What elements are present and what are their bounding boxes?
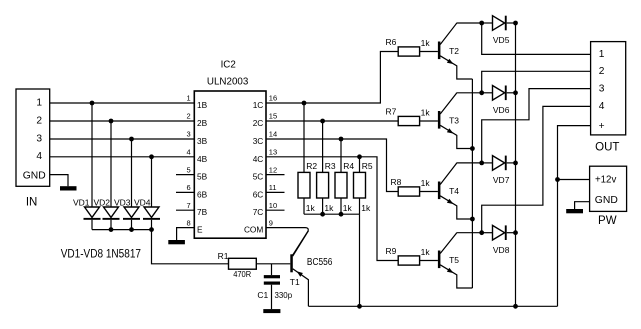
label VD5 [493,35,510,45]
svg-text:6B: 6B [197,189,208,199]
node VD5 anode junction [479,21,484,26]
node VD8 anode junction [479,230,484,235]
pin number 9 [269,218,273,227]
label BC556 [307,257,333,268]
wire R1 to T1 base [256,263,290,265]
label IC pin 4B [197,154,208,164]
svg-text:4: 4 [36,151,42,162]
label IC pin 3B [197,136,208,146]
wire +12v [558,179,590,181]
svg-text:1: 1 [599,49,605,60]
svg-text:GND: GND [23,171,46,182]
svg-text:470R: 470R [233,270,251,279]
pin number 2 [187,112,191,121]
value 1k of R5 [361,203,371,213]
connector PW box [590,166,627,211]
svg-text:7C: 7C [253,207,264,217]
resistor R2 [298,103,310,214]
wire OUT pin 2 [482,71,591,93]
resistor R6 [398,47,419,56]
label R7 [386,107,397,117]
value 1k of R2 [306,203,316,213]
wire R2-R5 bottom bus [304,213,360,215]
svg-text:1: 1 [187,94,191,103]
wire input 2 (IN pin 2 to IC pin 2) [50,120,195,122]
label R4 [343,161,354,171]
svg-text:R4: R4 [343,161,354,171]
pin number 1 [187,94,191,103]
resistor R8 [398,187,419,196]
svg-text:T5: T5 [449,255,459,265]
svg-text:R2: R2 [306,161,317,171]
value 330p [275,290,293,300]
label IC pin 5C [253,172,264,182]
svg-text:VD3: VD3 [114,197,131,207]
wire bottom +12V rail [308,305,557,307]
wire 1C to R6 [266,52,398,104]
diode VD5 [482,16,516,31]
diode VD8 [482,225,516,240]
wire IC pin 12 stub [266,174,285,176]
svg-text:VD7: VD7 [493,175,510,185]
diode VD7 [482,156,516,171]
pin number 6 [187,183,191,192]
connector OUT box [591,42,626,135]
label +12v [595,175,616,186]
label IC pin 1B [197,100,208,110]
label IC pin 3C [253,136,264,146]
wire R8 to T4 base [420,191,438,193]
connector IN pin 3 label [36,133,42,144]
svg-text:R8: R8 [391,177,402,187]
svg-text:6: 6 [187,183,191,192]
svg-text:16: 16 [269,94,277,103]
node bus R3 [320,212,325,217]
resistor R5 [354,157,366,214]
svg-text:BC556: BC556 [307,257,333,268]
wire OUT plus pin [558,126,591,307]
label IC pin 1C [253,100,264,110]
svg-text:5C: 5C [253,172,264,182]
svg-text:+12v: +12v [595,175,616,186]
svg-text:VD1-VD8 1N5817: VD1-VD8 1N5817 [61,248,141,260]
connector IN pin 2 label [36,115,42,126]
label IC pin 4C [253,154,264,164]
svg-text:4: 4 [187,148,191,157]
capacitor C1 [264,264,280,309]
svg-text:IN: IN [26,197,38,209]
node junction input 1 / VD1 [90,101,95,106]
pin number 10 [269,201,277,210]
label IC pin 2C [253,118,264,128]
node bus R4 [339,212,344,217]
pin number 12 [269,165,277,174]
svg-text:VD8: VD8 [493,245,510,255]
label IC pin 7B [197,207,208,217]
wire bus to R1 [152,230,229,264]
resistor R4 [335,139,347,214]
label VD1-VD8 1N5817 [61,248,141,260]
svg-text:T2: T2 [449,46,459,56]
svg-text:VD5: VD5 [493,35,510,45]
label IN [26,197,38,209]
diode VD2 [103,121,120,230]
pin number 15 [269,112,277,121]
node R5 at rail [357,304,362,309]
svg-text:2C: 2C [253,118,264,128]
label GND of PW [595,195,618,206]
label IC pin 6C [253,189,264,199]
svg-text:13: 13 [269,148,277,157]
node bus VD4 [149,227,154,232]
node +12v junction [555,177,560,182]
label IC pin 6B [197,189,208,199]
svg-text:1k: 1k [421,247,431,257]
svg-text:3: 3 [36,133,42,144]
label R2 [306,161,317,171]
diode VD6 [482,86,516,101]
pin number 8 [187,218,191,227]
svg-text:1k: 1k [324,203,334,213]
wire 4C to R9 [266,157,398,261]
connector IN pin GND label [23,171,46,182]
value 470R [233,270,251,279]
wire 3C to R8 [266,139,398,192]
svg-text:7B: 7B [197,207,208,217]
svg-text:3: 3 [187,130,191,139]
node VD7 anode junction [479,161,484,166]
node junction input 4 / VD4 [149,154,154,159]
wire input 4 (IN pin 4 to IC pin 4) [50,156,195,158]
svg-text:VD2: VD2 [93,197,110,207]
wire diode cathode bus [92,229,152,231]
wire IN GND [50,175,68,187]
label VD2 [93,197,110,207]
value 1k of R4 [343,203,353,213]
node junction input 3 / VD3 [129,137,134,142]
svg-text:4: 4 [599,101,605,112]
connector OUT pin + label [599,121,605,132]
wire IC pin 6 stub [176,191,194,193]
svg-text:T1: T1 [290,277,300,287]
svg-text:+: + [599,121,605,132]
label T5 [449,255,459,265]
svg-text:2B: 2B [197,118,208,128]
wire OUT pin 1 [482,23,591,54]
node T3 emitter junction [470,146,475,151]
label R1 [218,251,229,261]
svg-text:R3: R3 [325,161,336,171]
node junction output 1 / R2 [302,101,307,106]
svg-text:2: 2 [599,66,605,77]
connector OUT pin 4 label [599,101,605,112]
svg-text:E: E [197,225,203,235]
svg-text:COM: COM [244,225,263,235]
label VD3 [114,197,131,207]
wire IC pin 10 stub [266,209,285,211]
wire R7 to T3 base [420,120,438,122]
svg-text:6C: 6C [253,189,264,199]
label T1 [290,277,300,287]
wire PW GND [575,202,590,209]
svg-text:3: 3 [599,83,605,94]
resistor R9 [398,256,419,265]
node bus VD2 [109,227,114,232]
label IC pin E [197,225,203,235]
label VD4 [134,197,151,207]
label OUT [595,142,619,154]
svg-text:T3: T3 [449,116,459,126]
pin number 14 [269,130,277,139]
diode VD4 [143,157,160,230]
node junction output 2 / R3 [320,119,325,124]
svg-text:2: 2 [36,115,42,126]
node junction input 2 / VD2 [109,119,114,124]
label VD6 [493,105,510,115]
wire cathode bus to +12V rail [515,23,517,306]
wire 2C to R7 [266,120,398,122]
svg-text:1k: 1k [343,203,353,213]
connector OUT pin 2 label [599,66,605,77]
wire input 1 (IN pin 1 to IC pin 1) [50,102,195,104]
label T2 [449,46,459,56]
svg-text:VD6: VD6 [493,105,510,115]
svg-text:8: 8 [187,218,191,227]
connector IN pin 4 label [36,151,42,162]
pin number 3 [187,130,191,139]
svg-text:R5: R5 [362,161,373,171]
value 1k of R6 [421,38,431,48]
resistor R7 [398,116,419,125]
wire OUT pin 4 [482,106,591,232]
node VD8 cathode junction [513,230,518,235]
svg-text:10: 10 [269,201,277,210]
wire IC pin 8 E [177,228,195,240]
svg-text:1k: 1k [421,107,431,117]
value 1k of R9 [421,247,431,257]
svg-text:3C: 3C [253,136,264,146]
op-amp U1: IC2 ULN2003 box [194,91,266,238]
label IC pin 7C [253,207,264,217]
wire IC pin 7 stub [176,209,194,211]
node VD6 anode junction [479,90,484,95]
svg-text:14: 14 [269,130,277,139]
value 1k of R8 [421,178,431,188]
node junction output 3 / R4 [339,137,344,142]
node VD6 cathode junction [513,90,518,95]
wire R9 to T5 base [420,260,438,262]
svg-text:3B: 3B [197,136,208,146]
wire input 3 (IN pin 3 to IC pin 3) [50,138,195,140]
label PW [598,215,617,227]
node cathode bus at +12V rail [513,304,518,309]
label R6 [386,37,397,47]
connector IN box [16,89,50,186]
svg-text:GND: GND [595,195,618,206]
svg-text:R7: R7 [386,107,397,117]
svg-text:R1: R1 [218,251,229,261]
svg-text:PW: PW [598,215,617,227]
label VD8 [493,245,510,255]
transistor T2 [438,23,482,79]
svg-text:7: 7 [187,201,191,210]
wire OUT pin 3 [482,89,591,163]
svg-text:330p: 330p [275,290,293,300]
label IC pin 5B [197,172,208,182]
resistor R3 [317,121,329,214]
label R5 [362,161,373,171]
pin number 11 [269,183,277,192]
label R8 [391,177,402,187]
svg-text:OUT: OUT [595,142,619,154]
pin number 13 [269,148,277,157]
label IC pin COM [244,225,263,235]
wire COM to T1 collector [266,228,308,256]
transistor T1 [290,231,308,306]
label IC2 [221,60,236,71]
resistor R1 [229,258,257,269]
node junction output 4 / R5 [357,154,362,159]
svg-text:12: 12 [269,165,277,174]
transistor T5 [438,233,482,288]
svg-text:15: 15 [269,112,277,121]
svg-text:1: 1 [36,97,42,108]
label VD7 [493,175,510,185]
transistor T3 [438,93,482,149]
svg-text:VD4: VD4 [134,197,151,207]
node VD5 cathode junction [513,21,518,26]
wire IC pin 11 stub [266,191,285,193]
svg-text:1B: 1B [197,100,208,110]
svg-text:R6: R6 [386,37,397,47]
wire R6 to T2 base [420,51,438,53]
svg-text:1C: 1C [253,100,264,110]
connector OUT pin 1 label [599,49,605,60]
svg-text:5: 5 [187,165,191,174]
svg-text:1k: 1k [421,38,431,48]
ground at IN [60,186,77,190]
svg-text:11: 11 [269,183,277,192]
pin number 5 [187,165,191,174]
ground at PW [566,209,583,213]
node VD7 cathode junction [513,161,518,166]
label VD1 [73,197,90,207]
svg-text:5B: 5B [197,172,208,182]
svg-text:T4: T4 [449,186,459,196]
label IC pin 2B [197,118,208,128]
svg-text:IC2: IC2 [221,60,236,71]
pin number 16 [269,94,277,103]
svg-text:4C: 4C [253,154,264,164]
label R9 [386,246,397,256]
svg-text:VD1: VD1 [73,197,90,207]
label C1 [257,290,268,300]
wire R5 column to +12V rail [359,214,361,306]
svg-text:R9: R9 [386,246,397,256]
svg-text:9: 9 [269,218,273,227]
label T4 [449,186,459,196]
label R3 [325,161,336,171]
label ULN2003 [207,77,249,88]
value 1k of R3 [324,203,334,213]
transistor T4 [438,163,482,219]
node bus VD3 [129,227,134,232]
svg-text:C1: C1 [257,290,268,300]
pin number 7 [187,201,191,210]
svg-text:4B: 4B [197,154,208,164]
svg-text:ULN2003: ULN2003 [207,77,249,88]
svg-text:1k: 1k [306,203,316,213]
ground at C1 [263,309,280,313]
svg-text:1k: 1k [421,178,431,188]
diode VD3 [123,139,140,230]
svg-text:1k: 1k [361,203,371,213]
ground at E [168,240,185,244]
connector IN pin 1 label [36,97,42,108]
wire IC pin 5 stub [176,174,194,176]
pin number 4 [187,148,191,157]
connector OUT pin 3 label [599,83,605,94]
svg-text:2: 2 [187,112,191,121]
wire emitter rail [471,79,473,288]
label T3 [449,116,459,126]
value 1k of R7 [421,107,431,117]
diode VD1 [84,103,101,230]
node T4 emitter junction [470,217,475,222]
